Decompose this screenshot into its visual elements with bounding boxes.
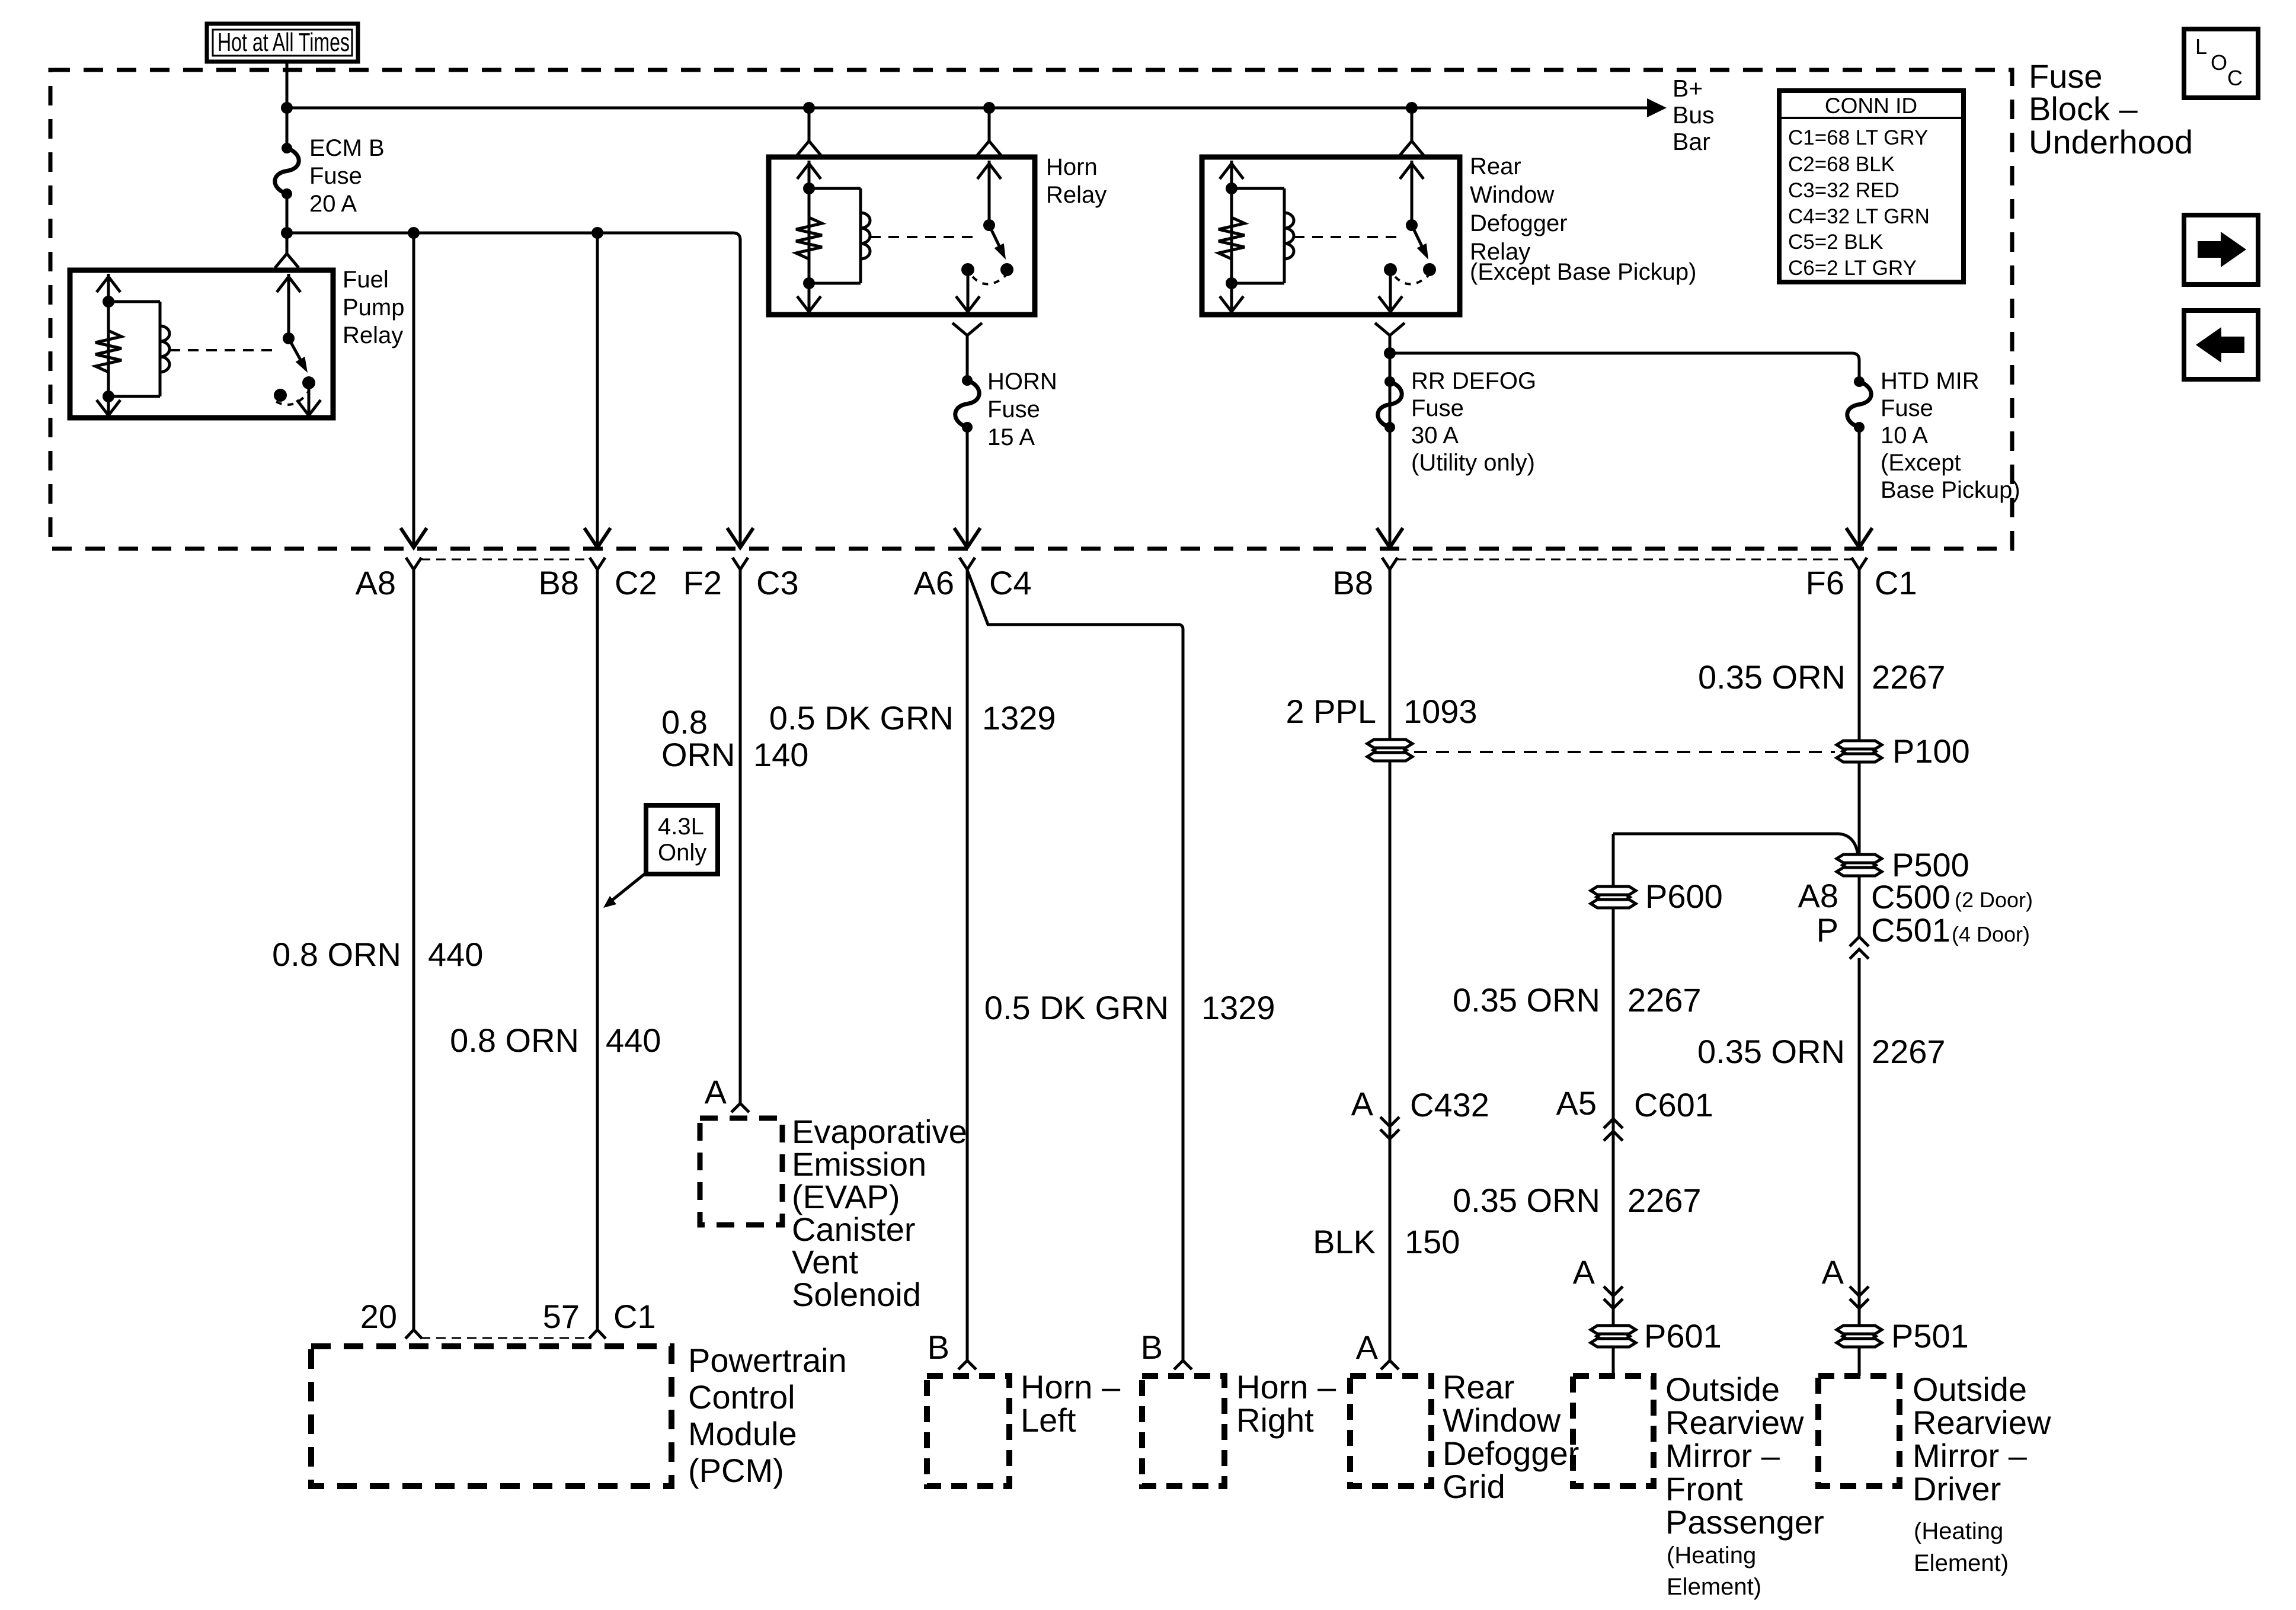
svg-text:20 A: 20 A	[309, 191, 357, 217]
svg-text:Block –: Block –	[2029, 90, 2138, 127]
svg-text:Emission: Emission	[792, 1145, 926, 1183]
svg-text:Relay: Relay	[343, 322, 403, 348]
svg-text:2267: 2267	[1627, 1182, 1702, 1219]
svg-text:ORN: ORN	[661, 736, 735, 773]
svg-text:Grid: Grid	[1443, 1468, 1505, 1505]
svg-text:A6: A6	[914, 564, 955, 601]
svg-text:Fuel: Fuel	[343, 267, 389, 293]
svg-text:HORN: HORN	[987, 369, 1057, 395]
svg-text:1329: 1329	[982, 699, 1056, 737]
svg-text:Powertrain: Powertrain	[688, 1342, 847, 1379]
svg-text:B8: B8	[539, 564, 580, 601]
svg-text:Driver: Driver	[1913, 1470, 2001, 1507]
svg-text:Defogger: Defogger	[1443, 1435, 1579, 1472]
svg-text:Underhood: Underhood	[2029, 123, 2193, 161]
svg-text:Left: Left	[1021, 1401, 1076, 1439]
svg-text:440: 440	[428, 936, 483, 973]
svg-text:Rear: Rear	[1443, 1368, 1514, 1406]
svg-text:A8: A8	[1798, 877, 1839, 914]
svg-text:B: B	[1141, 1329, 1163, 1366]
svg-text:Right: Right	[1236, 1401, 1314, 1439]
svg-text:C1=68 LT GRY: C1=68 LT GRY	[1788, 126, 1928, 149]
svg-text:C4: C4	[989, 564, 1032, 601]
svg-text:C5=2 BLK: C5=2 BLK	[1788, 231, 1884, 254]
svg-text:Rear: Rear	[1470, 153, 1521, 180]
svg-text:Fuse: Fuse	[2029, 57, 2103, 95]
svg-text:Fuse: Fuse	[309, 163, 362, 189]
svg-text:C432: C432	[1410, 1086, 1489, 1124]
svg-text:(4 Door): (4 Door)	[1952, 922, 2030, 946]
svg-text:Horn –: Horn –	[1021, 1368, 1121, 1406]
svg-text:0.8: 0.8	[661, 703, 708, 741]
svg-text:(Utility only): (Utility only)	[1411, 450, 1535, 476]
svg-text:30 A: 30 A	[1411, 422, 1459, 449]
svg-text:Fuse: Fuse	[1881, 395, 1933, 421]
svg-text:C501: C501	[1871, 911, 1950, 949]
svg-text:B8: B8	[1333, 564, 1374, 601]
svg-text:Outside: Outside	[1913, 1371, 2027, 1408]
svg-text:C4=32 LT GRN: C4=32 LT GRN	[1788, 205, 1930, 228]
svg-text:L: L	[2195, 34, 2207, 59]
svg-text:Front: Front	[1665, 1470, 1743, 1507]
svg-text:Control: Control	[688, 1378, 795, 1416]
svg-text:Rearview: Rearview	[1913, 1404, 2051, 1441]
svg-text:20: 20	[360, 1298, 397, 1335]
svg-text:140: 140	[753, 736, 808, 773]
svg-text:C6=2 LT GRY: C6=2 LT GRY	[1788, 257, 1917, 280]
svg-text:10 A: 10 A	[1881, 422, 1928, 449]
svg-text:P600: P600	[1645, 878, 1723, 915]
svg-text:RR DEFOG: RR DEFOG	[1411, 368, 1536, 394]
svg-text:ECM B: ECM B	[309, 135, 385, 161]
svg-text:Relay: Relay	[1046, 182, 1107, 208]
svg-text:F2: F2	[683, 564, 722, 601]
svg-text:1329: 1329	[1201, 989, 1275, 1026]
svg-text:A: A	[1822, 1253, 1844, 1291]
svg-text:C500: C500	[1871, 878, 1950, 916]
svg-text:(Heating: (Heating	[1914, 1518, 2003, 1544]
svg-text:C3: C3	[756, 564, 799, 601]
svg-text:0.5 DK GRN: 0.5 DK GRN	[769, 699, 954, 737]
svg-text:A: A	[1573, 1253, 1595, 1291]
svg-text:2267: 2267	[1872, 658, 1946, 696]
svg-text:(Except Base Pickup): (Except Base Pickup)	[1470, 259, 1696, 285]
svg-text:A: A	[1356, 1329, 1379, 1366]
svg-text:2 PPL: 2 PPL	[1285, 693, 1376, 730]
svg-text:Passenger: Passenger	[1665, 1503, 1824, 1541]
svg-text:Bar: Bar	[1673, 128, 1710, 155]
svg-text:1093: 1093	[1403, 693, 1478, 730]
svg-text:Canister: Canister	[792, 1211, 916, 1248]
svg-text:Window: Window	[1470, 182, 1554, 208]
svg-text:C2=68 BLK: C2=68 BLK	[1788, 153, 1895, 176]
svg-text:F6: F6	[1806, 564, 1844, 601]
svg-text:C1: C1	[613, 1298, 656, 1335]
svg-text:A: A	[1351, 1085, 1374, 1122]
svg-text:150: 150	[1405, 1223, 1460, 1260]
svg-text:HTD MIR: HTD MIR	[1881, 368, 1980, 394]
svg-text:Hot at All Times: Hot at All Times	[218, 28, 350, 57]
svg-text:0.8 ORN: 0.8 ORN	[272, 936, 401, 973]
svg-text:Mirror –: Mirror –	[1913, 1437, 2028, 1474]
svg-text:A8: A8	[356, 564, 396, 601]
svg-text:Fuse: Fuse	[1411, 395, 1464, 421]
svg-text:0.35 ORN: 0.35 ORN	[1698, 658, 1846, 696]
svg-text:Bus: Bus	[1673, 101, 1715, 129]
svg-text:0.8 ORN: 0.8 ORN	[450, 1022, 579, 1059]
svg-text:(2 Door): (2 Door)	[1955, 888, 2033, 912]
svg-text:Pump: Pump	[343, 295, 405, 321]
svg-text:B: B	[928, 1329, 949, 1366]
svg-text:Evaporative: Evaporative	[792, 1113, 967, 1150]
svg-text:57: 57	[543, 1298, 580, 1335]
svg-text:Element): Element)	[1914, 1550, 2009, 1576]
svg-text:Mirror –: Mirror –	[1665, 1437, 1780, 1474]
svg-text:B+: B+	[1673, 75, 1703, 102]
svg-text:0.35 ORN: 0.35 ORN	[1453, 981, 1600, 1019]
svg-text:Outside: Outside	[1665, 1371, 1780, 1408]
svg-text:(Heating: (Heating	[1667, 1542, 1756, 1569]
svg-text:Rearview: Rearview	[1665, 1404, 1804, 1441]
svg-text:BLK: BLK	[1313, 1223, 1376, 1260]
svg-text:(Except: (Except	[1881, 450, 1961, 476]
svg-text:P501: P501	[1891, 1317, 1969, 1355]
svg-text:C: C	[2227, 66, 2243, 90]
svg-text:2267: 2267	[1872, 1033, 1946, 1070]
svg-text:Horn –: Horn –	[1236, 1368, 1336, 1406]
svg-text:CONN ID: CONN ID	[1825, 94, 1917, 118]
svg-text:C1: C1	[1875, 564, 1917, 601]
svg-text:Defogger: Defogger	[1470, 210, 1568, 236]
svg-text:A5: A5	[1556, 1084, 1597, 1122]
svg-text:Vent: Vent	[792, 1243, 859, 1281]
svg-text:440: 440	[606, 1022, 661, 1059]
svg-text:0.35 ORN: 0.35 ORN	[1453, 1182, 1600, 1219]
svg-text:15 A: 15 A	[987, 424, 1035, 450]
svg-text:C601: C601	[1634, 1086, 1713, 1124]
svg-text:4.3L: 4.3L	[658, 814, 704, 840]
svg-text:Fuse: Fuse	[987, 396, 1040, 422]
svg-text:Window: Window	[1443, 1401, 1561, 1439]
svg-text:Solenoid: Solenoid	[792, 1276, 921, 1313]
svg-text:Module: Module	[688, 1415, 797, 1452]
svg-text:C2: C2	[615, 564, 657, 601]
svg-text:0.35 ORN: 0.35 ORN	[1697, 1033, 1845, 1070]
svg-text:(EVAP): (EVAP)	[792, 1178, 900, 1215]
svg-text:(PCM): (PCM)	[688, 1452, 784, 1489]
svg-text:P601: P601	[1644, 1317, 1722, 1355]
svg-text:0.5 DK GRN: 0.5 DK GRN	[984, 989, 1169, 1026]
svg-text:2267: 2267	[1627, 981, 1702, 1019]
svg-text:P100: P100	[1892, 732, 1970, 770]
svg-text:Element): Element)	[1667, 1574, 1761, 1600]
svg-text:Horn: Horn	[1046, 154, 1098, 180]
svg-text:Only: Only	[658, 840, 706, 866]
svg-text:A: A	[705, 1073, 727, 1110]
svg-text:Base Pickup): Base Pickup)	[1881, 477, 2020, 503]
svg-text:O: O	[2211, 50, 2227, 75]
svg-text:P: P	[1817, 911, 1838, 949]
svg-text:C3=32 RED: C3=32 RED	[1788, 179, 1900, 202]
